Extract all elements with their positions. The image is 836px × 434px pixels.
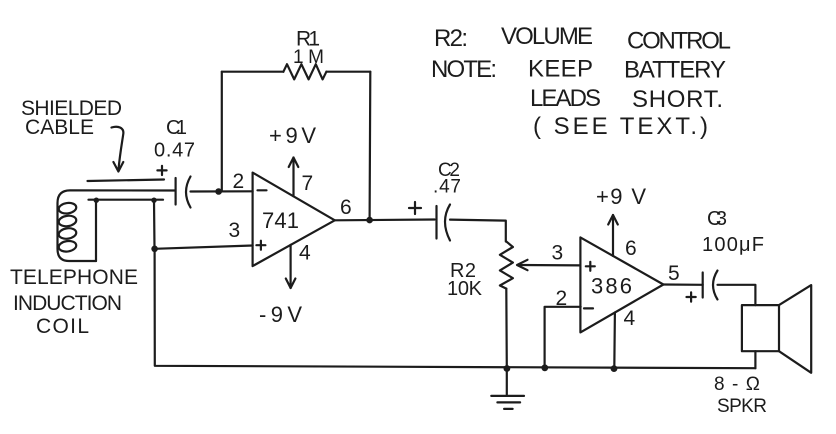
node A junction dot — [151, 246, 158, 253]
C1 polarity plus sign — [157, 166, 166, 175]
pin 7 supply arrow — [289, 158, 299, 197]
U2 non-inverting plus sign — [586, 262, 595, 271]
svg-text:5: 5 — [668, 262, 680, 285]
op-amp U1 741 triangle — [253, 173, 335, 267]
wire: 386 output to C3 — [663, 283, 702, 285]
capacitor C3 — [703, 271, 718, 300]
svg-text:TELEPHONE: TELEPHONE — [10, 266, 138, 289]
wire: C1 to 741 pin 2 — [191, 190, 253, 192]
note text: R2 volume control — [434, 23, 731, 55]
op-amp U2 386 triangle — [580, 237, 663, 332]
svg-text:VOLUME: VOLUME — [501, 23, 593, 50]
svg-text:3: 3 — [229, 219, 241, 242]
wire: 386 pin 4 to ground rail — [613, 313, 616, 369]
speaker LS1 — [742, 285, 811, 373]
svg-text:1M: 1M — [293, 47, 324, 68]
U1 non-inverting input plus sign — [256, 241, 265, 250]
junction on lower conductor (amp side) — [151, 198, 156, 203]
note text: keep battery leads short — [431, 56, 726, 141]
svg-text:3: 3 — [552, 242, 564, 265]
wire: feedback top-right segment — [326, 71, 370, 73]
junction on lower conductor (coil side) — [94, 198, 99, 203]
svg-text:2: 2 — [233, 170, 245, 193]
C2 polarity plus sign — [409, 202, 421, 214]
label C1 0.47 — [154, 117, 195, 162]
label SHIELDED CABLE — [21, 97, 122, 139]
label C3 100uF — [702, 208, 764, 256]
capacitor C2 — [437, 205, 451, 241]
svg-text:SPKR: SPKR — [717, 396, 767, 417]
svg-text:BATTERY: BATTERY — [624, 57, 726, 84]
arrow from label to cable shield — [112, 127, 124, 172]
node B: inverting input / feedback junction dot — [215, 188, 222, 195]
wire: feedback top-left segment — [222, 71, 284, 73]
svg-text:+9V: +9V — [269, 123, 316, 148]
label R1 1M — [293, 28, 324, 69]
wire: pin 3 from node A to 741 — [155, 246, 253, 249]
label R2 10K — [447, 260, 483, 300]
svg-text:+9 V: +9 V — [596, 184, 646, 209]
shield line of shielded cable — [88, 180, 165, 182]
svg-text:CONTROL: CONTROL — [627, 28, 731, 55]
resistor R1 — [283, 64, 326, 79]
wire: feedback left vertical — [221, 72, 223, 192]
svg-text:4: 4 — [624, 307, 636, 330]
svg-text:C3: C3 — [707, 208, 727, 230]
wire: 741 output to C2 — [335, 218, 435, 221]
label TELEPHONE INDUCTION COIL — [10, 266, 138, 338]
wire: coil spine + top lead + upper cable conductor to C1 — [58, 190, 176, 261]
capacitor C1 — [176, 177, 191, 208]
svg-text:CABLE: CABLE — [25, 116, 94, 139]
svg-text:100μF: 100μF — [702, 234, 764, 256]
svg-text:7: 7 — [302, 172, 314, 195]
svg-text:COIL: COIL — [36, 315, 89, 338]
telephone induction coil L1 — [58, 202, 77, 253]
svg-text:10K: 10K — [447, 278, 483, 300]
node D: ground rail junction at R2 — [504, 365, 511, 372]
pin 4 supply arrow — [286, 245, 296, 288]
wire: C3 to speaker top — [718, 285, 756, 305]
svg-text:6: 6 — [625, 237, 637, 260]
svg-text:R2:: R2: — [434, 25, 468, 52]
svg-text:( SEE TEXT.): ( SEE TEXT.) — [533, 113, 708, 140]
node C: output / feedback junction dot — [366, 217, 373, 224]
C3 polarity plus sign — [687, 292, 696, 301]
potentiometer R2 element — [500, 242, 513, 289]
svg-text:4: 4 — [299, 242, 311, 265]
wire: feedback right vertical — [369, 72, 372, 221]
pin 6 supply arrow (386) — [608, 215, 618, 256]
wire: lower cable conductor — [89, 199, 164, 201]
label C2 .47 — [433, 160, 461, 198]
svg-text:0.47: 0.47 — [154, 140, 195, 162]
U2 inverting minus sign — [584, 307, 593, 309]
wire: ground rail (left vertical + bottom run) — [155, 249, 756, 368]
svg-text:INDUCTION: INDUCTION — [13, 292, 122, 315]
ground symbol — [491, 369, 524, 409]
U1 inverting input minus sign — [258, 189, 267, 191]
svg-text:NOTE:: NOTE: — [431, 56, 497, 83]
svg-text:8-Ω: 8-Ω — [714, 374, 760, 395]
wire: rail to speaker bottom — [754, 351, 756, 368]
svg-text:KEEP: KEEP — [528, 56, 593, 83]
svg-text:C1: C1 — [166, 117, 187, 139]
wire: R2 bottom to ground rail — [505, 289, 508, 369]
wire: 386 pin 2 return to ground rail — [545, 307, 581, 368]
svg-text:6: 6 — [340, 196, 352, 219]
label 8-ohm SPKR — [714, 374, 767, 417]
R2 wiper arrow to 386 pin 3 — [517, 260, 580, 270]
wire: lower conductor drop to node A — [153, 200, 156, 249]
svg-text:741: 741 — [262, 208, 299, 233]
svg-text:-9V: -9V — [259, 302, 302, 327]
wire: coil-end vertical of lower conductor — [95, 200, 97, 261]
svg-text:386: 386 — [591, 274, 632, 299]
svg-text:SHORT.: SHORT. — [632, 86, 723, 113]
svg-text:.47: .47 — [433, 177, 461, 198]
node F: ground rail junction at 386 pin 4 — [611, 365, 618, 372]
svg-text:2: 2 — [556, 287, 568, 310]
node E: ground rail junction at pin 2 return — [541, 364, 548, 371]
svg-text:LEADS: LEADS — [530, 85, 601, 112]
wire: C2 to R2 top corner — [450, 220, 506, 242]
